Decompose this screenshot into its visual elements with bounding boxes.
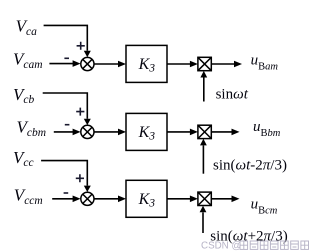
arrowhead right at output uBam	[234, 61, 242, 68]
plus sign at summer 1	[77, 42, 85, 50]
minus sign at summer 1	[64, 57, 69, 59]
arrowhead right into multiplier 1	[190, 61, 198, 68]
arrowhead right into K3 block 2	[118, 129, 126, 136]
wire K3 block1 to multiplier 1	[167, 63, 192, 65]
minus sign at summer 3	[64, 192, 69, 194]
arrowhead right into summer 3	[73, 196, 81, 203]
svg-text:uBcm: uBcm	[251, 197, 278, 217]
svg-text:K3: K3	[138, 124, 156, 143]
arrowhead right into multiplier 3	[190, 196, 198, 203]
svg-text:uBam: uBam	[251, 53, 279, 73]
arrowhead down into summer 3	[84, 186, 91, 192]
svg-text:K3: K3	[138, 191, 156, 210]
svg-text:K3: K3	[138, 56, 156, 75]
arrowhead up into multiplier 2	[200, 139, 207, 146]
svg-text:Vccm: Vccm	[14, 186, 43, 207]
wire sinwt up into multiplier 1	[203, 78, 205, 102]
multiplier box 1 (box with X)	[198, 57, 211, 70]
arrowhead right into K3 block 3	[118, 196, 126, 203]
arrowhead right at output uBcm	[232, 196, 240, 203]
svg-text:Vcbm: Vcbm	[17, 118, 47, 139]
svg-text:CSDN @: CSDN @	[201, 241, 241, 251]
summing junction 2 (circle with X)	[81, 125, 94, 138]
wire summer1 to K3 block 1	[94, 63, 120, 65]
wire Vcb top horizontal+vertical into summer 2	[43, 93, 88, 119]
arrowhead right into summer 1	[73, 60, 81, 67]
wire summer2 to K3 block 2	[94, 131, 120, 133]
wire summer3 to K3 block 3	[94, 198, 120, 200]
svg-text:Vcb: Vcb	[13, 85, 34, 106]
wire multiplier2 to output uBbm	[211, 131, 233, 133]
arrowhead right at output uBbm	[232, 129, 240, 136]
arrowhead up into multiplier 3	[200, 206, 207, 213]
svg-text:Vcc: Vcc	[13, 148, 34, 169]
wire sin(wt-2pi/3) up into multiplier 2	[202, 145, 204, 173]
arrowhead up into multiplier 1	[200, 71, 207, 78]
watermark pseudo hanzi glyphs	[240, 241, 309, 249]
svg-text:uBbm: uBbm	[253, 119, 281, 139]
arrowhead right into multiplier 2	[190, 129, 198, 136]
multiplier box 3 (box with X)	[198, 192, 211, 205]
gain block K3 row 3	[126, 180, 167, 217]
plus sign at summer 2	[76, 108, 84, 116]
gain block K3 row 2	[126, 113, 167, 150]
wire K3 block2 to multiplier 2	[167, 131, 192, 133]
wire multiplier1 to output uBam	[211, 63, 235, 65]
svg-text:sin(ωt-2π/3): sin(ωt-2π/3)	[213, 158, 287, 174]
svg-text:Vca: Vca	[16, 17, 37, 38]
wire K3 block3 to multiplier 3	[167, 198, 192, 200]
wire Vcc top horizontal+vertical into summer 3	[41, 161, 87, 186]
wire Vccm into summer 3	[52, 198, 74, 200]
wire sin(wt+2pi/3) up into multiplier 3	[202, 212, 204, 233]
summing junction 3 (circle with X)	[81, 192, 94, 205]
multiplier box 2 (box with X)	[198, 125, 211, 138]
gain block K3 row 1	[126, 45, 167, 82]
arrowhead right into K3 block 1	[118, 61, 126, 68]
svg-text:Vcam: Vcam	[13, 50, 43, 71]
wire Vcbm into summer 2	[54, 131, 74, 133]
wire Vca top horizontal+vertical into summer 1	[44, 25, 88, 50]
wire Vcam into summer 1	[49, 63, 74, 65]
arrowhead down into summer 2	[84, 119, 91, 125]
wire multiplier3 to output uBcm	[211, 198, 233, 200]
svg-text:sinωt: sinωt	[216, 87, 249, 103]
arrowhead right into summer 2	[73, 129, 81, 136]
arrowhead down into summer 1	[84, 51, 91, 57]
minus sign at summer 2	[65, 124, 70, 126]
summing junction 1 (circle with X)	[81, 57, 94, 70]
plus sign at summer 3	[76, 174, 84, 182]
